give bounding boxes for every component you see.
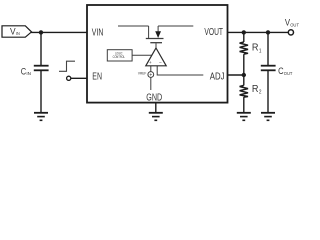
svg-text:VREF: VREF [138, 71, 146, 75]
svg-text:OUT: OUT [290, 22, 299, 27]
svg-text:OUT: OUT [284, 71, 293, 76]
svg-text:CONTROL: CONTROL [113, 55, 125, 59]
svg-text:IN: IN [16, 31, 20, 36]
svg-text:+: + [149, 72, 152, 78]
svg-text:GND: GND [146, 93, 162, 104]
svg-text:2: 2 [259, 90, 262, 96]
svg-text:VOUT: VOUT [204, 27, 223, 38]
svg-text:R: R [252, 84, 259, 95]
svg-text:ADJ: ADJ [210, 71, 225, 82]
svg-text:EN: EN [92, 72, 102, 83]
svg-text:1: 1 [259, 49, 262, 55]
svg-text:R: R [252, 43, 259, 54]
svg-text:V: V [10, 26, 16, 36]
svg-text:IN: IN [26, 71, 31, 76]
svg-text:+: + [149, 60, 152, 65]
svg-text:VIN: VIN [92, 28, 104, 39]
svg-text:−: − [159, 61, 162, 66]
